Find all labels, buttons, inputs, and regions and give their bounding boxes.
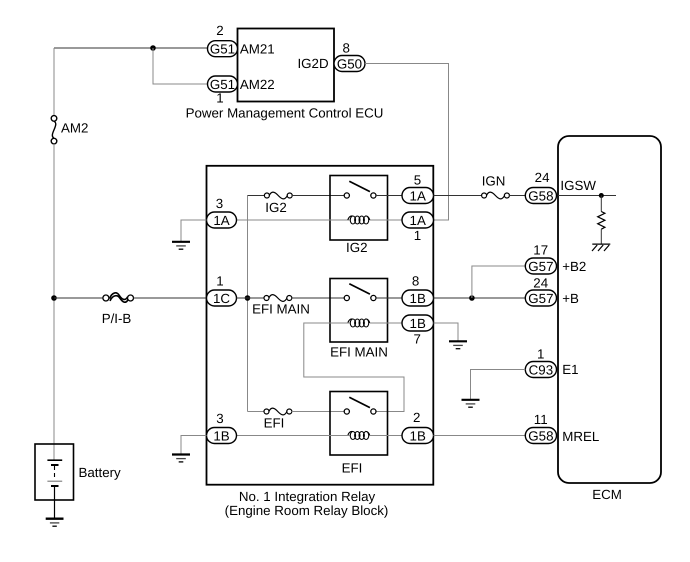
wire: drop from junction to AM22 row	[153, 48, 207, 84]
svg-text:ECM: ECM	[592, 487, 622, 502]
wire: battery feed top horizontal to G51 pin2	[54, 47, 207, 49]
svg-text:1B: 1B	[213, 428, 229, 443]
wire: EFI MAIN fuse to relay	[292, 297, 345, 299]
svg-text:1A: 1A	[213, 213, 229, 228]
svg-text:1B: 1B	[410, 316, 426, 331]
svg-text:G58: G58	[528, 428, 553, 443]
battery Battery	[35, 444, 74, 518]
wire: +B2 branch	[472, 266, 525, 298]
svg-text:24: 24	[533, 275, 548, 290]
svg-text:G57: G57	[528, 291, 553, 306]
svg-text:IG2D: IG2D	[297, 56, 328, 71]
wire: AM2 fuse to battery	[53, 144, 55, 460]
wire: riser from 1C junction up to IG2 fuse and down to EFI fuse	[247, 196, 249, 412]
ECU box: Power Management Control ECU	[238, 29, 335, 102]
svg-text:G51: G51	[210, 42, 235, 57]
svg-text:+B: +B	[562, 291, 579, 306]
connector G57 pin 17 (+B2)	[525, 258, 556, 274]
wire: 1B pin3 to ground	[181, 436, 207, 455]
svg-text:11: 11	[534, 412, 548, 427]
svg-text:3: 3	[216, 196, 223, 211]
wire: switch to 1A pin5	[376, 195, 402, 197]
svg-text:1C: 1C	[213, 291, 230, 306]
wire: EFI fuse to relay	[292, 411, 345, 413]
svg-text:MREL: MREL	[562, 429, 599, 444]
connector 1C pin 1	[207, 290, 237, 306]
svg-text:8: 8	[412, 274, 419, 289]
svg-text:1: 1	[216, 274, 223, 289]
wire: 1C to EFI MAIN fuse	[237, 297, 265, 299]
svg-text:1: 1	[537, 346, 544, 361]
wire: coil to 1B pin7	[370, 322, 402, 324]
svg-text:AM22: AM22	[240, 77, 275, 92]
fuse AM2	[51, 116, 57, 144]
svg-text:1A: 1A	[410, 188, 426, 203]
wire: 1B pin7 to ground	[434, 323, 459, 341]
svg-text:5: 5	[414, 173, 421, 188]
fuse EFI MAIN	[264, 295, 292, 302]
node: junction IGSW resistor	[599, 193, 604, 198]
connector G58 pin 24 (IGSW)	[525, 188, 556, 204]
resistor: IGSW pull-down	[598, 212, 605, 230]
wire: IGN fuse to G58	[509, 195, 525, 197]
svg-text:24: 24	[535, 170, 550, 185]
svg-text:+B2: +B2	[562, 259, 586, 274]
connector G51 pin 1 (AM22)	[208, 76, 238, 92]
wire: main +B row from 1B pin8 to G57	[434, 297, 526, 299]
node: junction battery feed / P/I-B row	[51, 295, 57, 301]
svg-text:G57: G57	[528, 259, 553, 274]
ECM box	[558, 136, 661, 483]
wire: left vertical battery feed	[53, 48, 55, 116]
svg-text:1A: 1A	[410, 213, 426, 228]
svg-text:17: 17	[533, 242, 548, 257]
relay EFI MAIN box	[330, 279, 388, 343]
wire: down to resistor	[600, 196, 602, 212]
wire: coil to 1B pin2	[370, 435, 402, 437]
svg-text:1: 1	[414, 228, 421, 243]
connector 1B pin 8	[402, 290, 434, 306]
connector 1A pin 5 (right)	[402, 188, 434, 204]
svg-text:EFI: EFI	[342, 460, 363, 475]
connector G57 pin 24 (+B)	[525, 290, 556, 306]
node: junction on main row	[245, 295, 251, 301]
svg-text:Power Management Control ECU: Power Management Control ECU	[186, 106, 384, 121]
svg-text:AM2: AM2	[61, 120, 88, 135]
wire: 1B pin3 row to coil	[237, 435, 350, 437]
svg-text:IGN: IGN	[482, 174, 506, 189]
connector C93 pin 1 (E1)	[525, 362, 556, 378]
svg-text:7: 7	[413, 331, 420, 346]
svg-text:G50: G50	[337, 56, 362, 71]
ground: chassis ground (IGSW)	[592, 244, 610, 251]
wire: main row P/I-B	[54, 297, 103, 299]
wire: IG2 fuse row	[248, 195, 265, 197]
fuse EFI	[264, 408, 292, 415]
svg-text:3: 3	[216, 411, 223, 426]
connector 1A pin 1 (right)	[402, 212, 434, 228]
svg-text:2: 2	[216, 23, 223, 38]
switch contacts EFI relay	[344, 397, 376, 414]
svg-text:IG2: IG2	[265, 200, 286, 215]
svg-text:1B: 1B	[410, 428, 426, 443]
fuse IG2	[264, 192, 292, 199]
fusible link P/I-B	[103, 293, 134, 302]
ground: EFI MAIN coil ground	[449, 341, 467, 348]
connector 1B pin 7	[402, 315, 434, 331]
svg-text:IG2: IG2	[346, 240, 367, 255]
svg-text:AM21: AM21	[240, 42, 275, 57]
coil EFI relay	[348, 431, 370, 439]
switch contacts IG2 relay	[344, 181, 376, 198]
connector G50 pin 8	[334, 56, 365, 72]
svg-text:E1: E1	[562, 362, 578, 377]
ground: EFI relay coil ground	[172, 455, 190, 462]
wire: EFI fuse row from riser	[248, 411, 265, 413]
wire: EFI MAIN coil left lead down to EFI relay switch	[304, 323, 404, 412]
svg-text:IGSW: IGSW	[560, 178, 596, 193]
relay IG2 box	[330, 176, 388, 241]
relay block box: No.1 Integration Relay	[207, 166, 434, 485]
svg-text:C93: C93	[529, 362, 553, 377]
connector G58 pin 11 (MREL)	[525, 428, 556, 444]
coil IG2 relay	[348, 216, 370, 224]
wire: P/I-B to 1C	[134, 297, 207, 299]
wire: IGSW internal pull-down	[558, 195, 616, 197]
ground: IG2 relay coil ground	[172, 242, 190, 249]
connector G51 pin 2 (AM21)	[208, 41, 238, 57]
svg-text:P/I-B: P/I-B	[102, 311, 132, 326]
wire: G50 to IG2 relay coil (via right side)	[365, 64, 449, 221]
svg-text:(Engine Room Relay Block): (Engine Room Relay Block)	[225, 503, 389, 518]
coil EFI MAIN relay	[348, 319, 370, 327]
switch contacts EFI MAIN relay	[344, 284, 376, 301]
wire: E1 to ground	[471, 370, 526, 400]
svg-text:1: 1	[216, 90, 223, 105]
node: junction at top wire	[150, 45, 156, 51]
connector 1B pin 3 (left)	[207, 428, 237, 444]
svg-text:2: 2	[413, 410, 420, 425]
svg-text:EFI MAIN: EFI MAIN	[252, 301, 310, 316]
wire: resistor to chassis ground	[600, 229, 602, 244]
svg-text:Battery: Battery	[79, 465, 122, 480]
connector 1B pin 2 (right)	[402, 428, 434, 444]
svg-text:No. 1 Integration Relay: No. 1 Integration Relay	[239, 489, 376, 504]
svg-text:G58: G58	[528, 188, 553, 203]
wire: MREL row from 1B pin2 to G58	[434, 435, 526, 437]
svg-text:1B: 1B	[410, 291, 426, 306]
wire: 1A pin3 to ground	[181, 220, 207, 242]
wire: coil row IG2 (ground side to coil to pin1)	[237, 219, 350, 221]
ground: battery ground	[46, 519, 64, 527]
ground: E1 ground	[462, 400, 480, 407]
relay EFI box	[330, 392, 388, 456]
connector 1A pin 3 (left)	[207, 212, 237, 228]
fuse IGN	[482, 192, 510, 199]
svg-text:EFI MAIN: EFI MAIN	[330, 345, 388, 360]
svg-text:8: 8	[342, 40, 349, 55]
wire: IG2 fuse to relay	[292, 195, 345, 197]
node: junction +B2 branch	[469, 295, 475, 301]
wire: IGN row from 1A pin5	[434, 195, 482, 197]
wire: switch to 1B pin8	[376, 297, 402, 299]
svg-text:EFI: EFI	[264, 416, 285, 431]
